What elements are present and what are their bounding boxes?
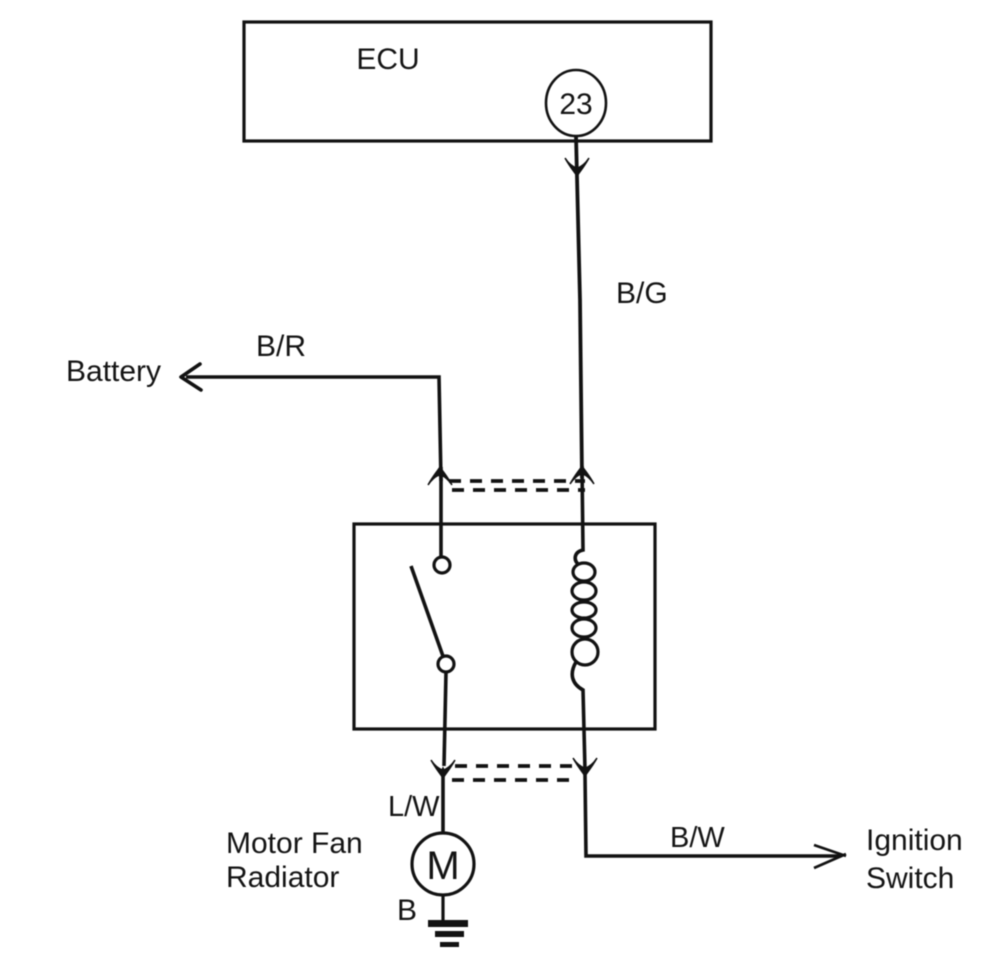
svg-text:ECU: ECU <box>356 43 419 76</box>
svg-text:Motor Fan: Motor Fan <box>226 827 363 860</box>
svg-text:Radiator: Radiator <box>226 861 339 894</box>
svg-text:Switch: Switch <box>866 862 954 895</box>
svg-text:Ignition: Ignition <box>866 824 963 857</box>
svg-text:23: 23 <box>559 88 592 121</box>
svg-text:L/W: L/W <box>388 791 440 823</box>
svg-text:B/R: B/R <box>256 330 306 363</box>
svg-text:B: B <box>397 894 417 927</box>
svg-text:B/W: B/W <box>670 822 725 854</box>
svg-text:M: M <box>426 844 459 888</box>
svg-text:Battery: Battery <box>66 355 161 388</box>
svg-text:B/G: B/G <box>616 277 668 310</box>
